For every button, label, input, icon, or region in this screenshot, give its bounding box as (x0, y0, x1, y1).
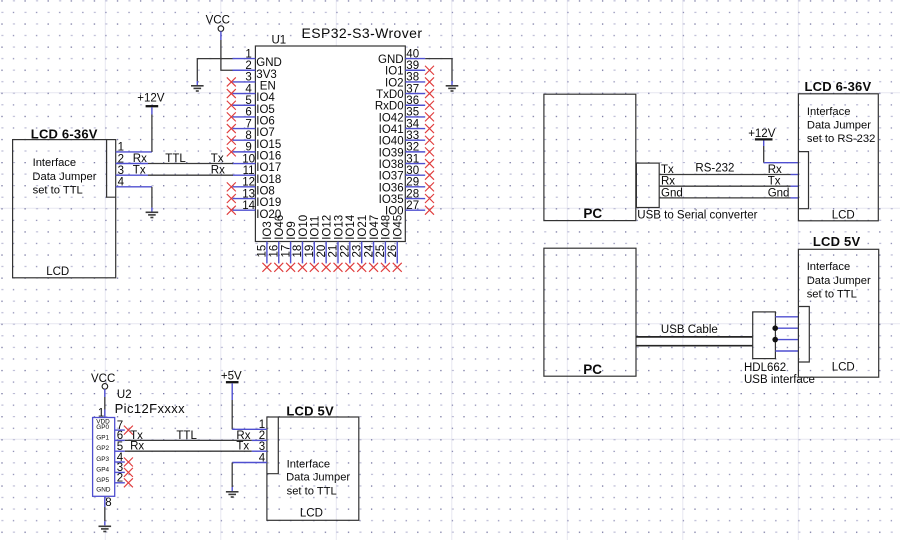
wire LCD pin 4 to ground (151, 187, 153, 208)
svg-text:HDL662: HDL662 (744, 362, 786, 374)
svg-text:10: 10 (242, 153, 255, 165)
svg-text:Rx: Rx (661, 176, 675, 188)
LCD 5V text Interface / Data Jumper / set to TTL (286, 459, 350, 498)
svg-text:IO21: IO21 (357, 215, 369, 240)
svg-text:Tx: Tx (768, 176, 781, 188)
svg-text:PC: PC (583, 206, 602, 221)
U1 right pin numbers 40-27 (406, 48, 419, 212)
wire +12V to LCD pin 1 right (763, 141, 765, 147)
svg-text:IO2: IO2 (385, 77, 404, 89)
svg-text:GP0: GP0 (96, 424, 109, 431)
junction dot HDL662 wire 3 (772, 337, 778, 343)
U1 bottom no-connect X marks pins 15-26 (262, 263, 401, 272)
svg-text:USB Cable: USB Cable (661, 324, 718, 336)
wire RS-232 Rx to LCD Tx (659, 185, 790, 187)
svg-text:IO10: IO10 (298, 215, 310, 240)
svg-text:35: 35 (406, 107, 419, 119)
svg-text:+5V: +5V (221, 370, 242, 382)
svg-text:GP4: GP4 (96, 466, 109, 473)
LCD connector divider bottom-center (267, 417, 278, 474)
svg-text:25: 25 (375, 245, 387, 258)
svg-text:5: 5 (245, 95, 251, 107)
svg-text:IO19: IO19 (256, 197, 281, 209)
svg-text:23: 23 (351, 245, 363, 258)
svg-text:3: 3 (245, 72, 251, 84)
ground symbol below LCD 5V pin 4 (226, 492, 239, 497)
svg-text:ESP32-S3-Wrover: ESP32-S3-Wrover (302, 25, 423, 41)
ground symbol below U2 (99, 526, 112, 531)
LCD module box top-left (13, 140, 116, 278)
svg-text:IO47: IO47 (369, 215, 381, 240)
ground symbol left of VCC (191, 86, 204, 91)
svg-text:IO11: IO11 (310, 216, 322, 240)
svg-text:Tx: Tx (236, 441, 249, 453)
svg-text:GND: GND (378, 54, 404, 66)
svg-text:LCD 6-36V: LCD 6-36V (805, 79, 872, 94)
svg-text:EN: EN (260, 81, 276, 93)
U1 left pin stubs pins 1-14 (233, 59, 256, 211)
svg-text:IO13: IO13 (333, 215, 345, 240)
svg-text:set to TTL: set to TTL (287, 485, 337, 497)
svg-text:LCD: LCD (46, 266, 69, 278)
HDL662 USB interface box (753, 312, 776, 359)
svg-text:Tx: Tx (133, 165, 146, 177)
svg-text:6: 6 (245, 107, 251, 119)
svg-text:Tx: Tx (661, 164, 674, 176)
svg-text:7: 7 (245, 118, 251, 130)
svg-text:GND: GND (96, 487, 111, 494)
LCD module box bottom-center (267, 417, 359, 520)
junction dot HDL662 wire 2 (772, 325, 778, 331)
wire U2 pin 8 to ground (104, 496, 106, 507)
wire VCC to U1 pin 2 3V3 (220, 31, 222, 40)
svg-text:IO18: IO18 (256, 174, 281, 186)
svg-text:IO6: IO6 (256, 116, 275, 128)
USB cable twin lines (636, 336, 753, 338)
U1 right no-connect X marks pins 27-39 (425, 66, 434, 215)
LCD connector pin stubs 1-4 (116, 152, 152, 187)
svg-text:Data Jumper: Data Jumper (32, 171, 96, 183)
svg-text:30: 30 (406, 165, 419, 177)
svg-text:VCC: VCC (91, 373, 115, 385)
svg-text:IO4: IO4 (256, 92, 275, 104)
LCD connector divider top-left (107, 140, 116, 198)
svg-text:34: 34 (406, 118, 419, 130)
svg-text:4: 4 (245, 83, 252, 95)
svg-text:40: 40 (406, 48, 419, 60)
svg-text:TTL: TTL (176, 430, 197, 442)
wire U1 pin 1 GND to ground (197, 59, 232, 81)
wire TTL Rx: U2 pin 5 to LCD 5V pin 3 (125, 450, 252, 452)
svg-text:IO46: IO46 (274, 215, 286, 240)
wire VCC to U2 pin 1 (104, 389, 106, 397)
svg-text:12: 12 (242, 177, 255, 189)
svg-text:IO17: IO17 (256, 162, 281, 174)
svg-text:IO1: IO1 (385, 66, 404, 78)
svg-text:38: 38 (406, 72, 419, 84)
svg-text:IO5: IO5 (256, 104, 275, 116)
svg-text:Gnd: Gnd (661, 187, 683, 199)
svg-text:RxD0: RxD0 (375, 101, 404, 113)
svg-text:24: 24 (363, 244, 375, 257)
svg-text:33: 33 (406, 130, 419, 142)
svg-text:U2: U2 (117, 389, 132, 401)
svg-text:+12V: +12V (748, 128, 776, 140)
wire +12V to LCD pin 1 (151, 107, 153, 114)
svg-text:39: 39 (406, 60, 419, 72)
svg-text:37: 37 (406, 83, 419, 95)
svg-text:USB to Serial converter: USB to Serial converter (637, 210, 757, 222)
PC box top-right (544, 94, 636, 220)
svg-text:18: 18 (292, 245, 304, 258)
U1 left no-connect X marks pins 3-9 12-14 (227, 77, 236, 214)
svg-text:32: 32 (406, 142, 419, 154)
svg-text:RS-232: RS-232 (695, 163, 734, 175)
svg-text:28: 28 (406, 188, 419, 200)
svg-text:IO40: IO40 (379, 136, 404, 148)
svg-text:IO3: IO3 (262, 221, 274, 240)
svg-text:IO38: IO38 (379, 159, 404, 171)
svg-text:Data Jumper: Data Jumper (286, 472, 350, 484)
wire TTL Tx: U2 pin 6 to LCD 5V pin 2 (125, 439, 252, 441)
U2 right pin numbers 7 6 5 4 3 2 (117, 420, 124, 485)
wire LCD 5V pin 4 to ground (231, 463, 233, 488)
svg-text:IO36: IO36 (379, 182, 404, 194)
LCD module box top-right (798, 94, 878, 221)
svg-text:VCC: VCC (206, 15, 230, 27)
svg-text:Data Jumper: Data Jumper (807, 275, 871, 287)
LCD connector pin numbers 1-4 (118, 142, 125, 189)
LCD 5V connector pin stubs 1-4 (232, 429, 267, 462)
svg-text:27: 27 (406, 200, 419, 212)
svg-text:16: 16 (268, 245, 280, 258)
LCD 5V connector pin numbers 1-4 (259, 419, 266, 464)
U2 right pin stubs (115, 430, 125, 483)
svg-text:Data Jumper: Data Jumper (807, 120, 871, 132)
svg-text:IO41: IO41 (379, 124, 404, 136)
svg-text:IO48: IO48 (381, 215, 393, 240)
svg-text:Rx: Rx (133, 153, 147, 165)
U1 right pin names GND IO1 IO2 TxD0 RxD0 IO42..IO0 (375, 54, 404, 218)
PC box bottom-right (544, 248, 636, 376)
IC U2 body Pic12Fxxxx (93, 418, 115, 497)
svg-text:Pic12Fxxxx: Pic12Fxxxx (115, 401, 186, 416)
svg-text:GP5: GP5 (96, 477, 109, 484)
svg-text:USB interface: USB interface (744, 374, 815, 386)
svg-text:LCD 5V: LCD 5V (813, 234, 861, 249)
LCD text Interface / Data Jumper / set to TTL (32, 157, 96, 197)
svg-text:14: 14 (242, 200, 255, 212)
svg-text:IO12: IO12 (321, 215, 333, 240)
U2 no-connect X marks pins 7 4 3 2 (124, 426, 133, 435)
svg-text:2: 2 (245, 60, 251, 72)
svg-text:U1: U1 (272, 34, 287, 46)
IC U1 body ESP32-S3-Wrover (255, 46, 405, 242)
svg-text:LCD: LCD (832, 209, 855, 221)
svg-text:set to RS-232: set to RS-232 (807, 133, 875, 145)
svg-text:IO37: IO37 (379, 171, 404, 183)
svg-text:Tx: Tx (211, 153, 224, 165)
wire +5V to LCD 5V pin 1 (231, 383, 233, 400)
svg-text:29: 29 (406, 177, 419, 189)
svg-text:Interface: Interface (807, 261, 851, 273)
svg-text:IO35: IO35 (379, 194, 404, 206)
svg-text:PC: PC (583, 362, 602, 377)
svg-text:IO42: IO42 (379, 112, 404, 124)
svg-text:20: 20 (316, 245, 328, 258)
svg-text:8: 8 (105, 497, 111, 509)
U2 internal pin labels VDD GP0-GP5 GND (96, 419, 111, 494)
svg-text:1: 1 (245, 48, 251, 60)
svg-text:IO7: IO7 (256, 127, 275, 139)
svg-text:GP2: GP2 (96, 445, 109, 452)
svg-text:IO45: IO45 (393, 215, 405, 240)
wire U1 pin 40 GND to ground (425, 59, 452, 81)
U1 right pin stubs pins 27-40 (405, 59, 425, 211)
svg-text:13: 13 (242, 188, 255, 200)
svg-text:TTL: TTL (165, 153, 186, 165)
svg-text:26: 26 (387, 245, 399, 258)
svg-text:GP1: GP1 (96, 434, 109, 441)
svg-text:GND: GND (256, 57, 282, 69)
svg-text:21: 21 (328, 245, 340, 258)
svg-text:+12V: +12V (137, 93, 165, 105)
wire TTL Rx: LCD pin 2 to U1 pin 10 IO17 (148, 163, 233, 165)
svg-text:8: 8 (245, 130, 251, 142)
svg-text:17: 17 (280, 245, 292, 258)
svg-text:36: 36 (406, 95, 419, 107)
svg-text:Interface: Interface (287, 459, 331, 471)
svg-text:IO16: IO16 (256, 150, 281, 162)
svg-text:11: 11 (243, 165, 255, 177)
svg-text:IO15: IO15 (256, 139, 281, 151)
svg-text:22: 22 (340, 245, 352, 258)
U1 left pin names GND 3V3 EN IO4..IO20 (256, 57, 282, 221)
wire RS-232 Tx to LCD Rx (659, 174, 790, 176)
U1 bottom pin numbers 15-26 rotated (257, 244, 399, 257)
svg-text:Rx: Rx (768, 164, 782, 176)
svg-text:IO8: IO8 (256, 185, 275, 197)
LCD right text Interface / Data Jumper / set to RS-232 (807, 106, 875, 145)
svg-text:IO39: IO39 (379, 147, 404, 159)
wire TTL Tx: LCD pin 3 to U1 pin 11 IO18 (148, 174, 233, 176)
USB to Serial converter box (636, 163, 659, 207)
svg-text:31: 31 (406, 153, 419, 165)
U1 bottom pin stubs pins 15-26 (267, 242, 397, 264)
svg-text:TxD0: TxD0 (376, 89, 403, 101)
svg-text:Gnd: Gnd (768, 187, 790, 199)
wire RS-232 Gnd to LCD Gnd (659, 197, 790, 199)
LCD connector divider top-right (799, 152, 809, 209)
LCD bottom-right text Interface / Data Jumper / set to TTL (807, 261, 871, 300)
svg-text:IO9: IO9 (286, 221, 298, 240)
svg-text:9: 9 (245, 142, 251, 154)
svg-text:LCD: LCD (832, 361, 855, 373)
svg-text:set to TTL: set to TTL (807, 289, 857, 301)
ground symbol below LCD pin 4 (146, 212, 159, 217)
svg-text:LCD: LCD (300, 507, 323, 519)
U1 left pin numbers 1-14 (242, 48, 255, 212)
U1 bottom pin names IO3 IO46 IO9 IO10..IO45 rotated (262, 214, 404, 240)
LCD module box bottom-right (798, 249, 878, 377)
svg-text:19: 19 (304, 245, 316, 258)
svg-text:set to TTL: set to TTL (33, 185, 83, 197)
svg-text:GP3: GP3 (96, 456, 109, 463)
svg-text:IO14: IO14 (345, 214, 357, 240)
svg-text:Rx: Rx (130, 441, 144, 453)
svg-text:Rx: Rx (211, 165, 225, 177)
svg-text:Interface: Interface (807, 106, 851, 118)
svg-text:3V3: 3V3 (256, 69, 276, 81)
wires HDL662 to LCD 5V connector (775, 317, 798, 351)
ground symbol right of U1 (446, 86, 459, 91)
LCD connector divider bottom-right (798, 307, 809, 363)
svg-text:Interface: Interface (33, 157, 77, 169)
svg-text:15: 15 (257, 245, 269, 258)
